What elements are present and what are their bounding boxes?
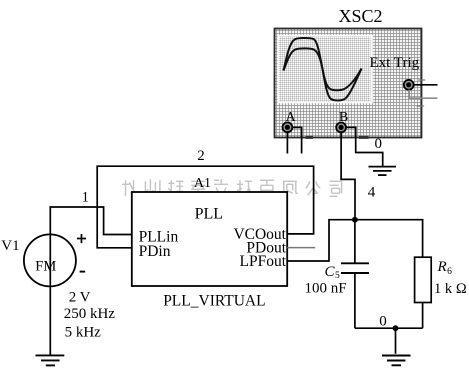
- svg-text:PLL_VIRTUAL: PLL_VIRTUAL: [163, 293, 265, 310]
- svg-text:PDin: PDin: [139, 243, 171, 260]
- svg-text:1 k Ω: 1 k Ω: [434, 281, 467, 297]
- ground symbol (V1): [36, 355, 65, 365]
- svg-text:250 kHz: 250 kHz: [64, 306, 116, 322]
- PLL block A1: [132, 148, 287, 310]
- svg-text:5 kHz: 5 kHz: [65, 325, 102, 341]
- capacitor C5: [341, 263, 369, 273]
- pin tick bottom edge left: [306, 136, 314, 139]
- svg-text:FM: FM: [35, 258, 56, 274]
- wire PDout stub: [287, 247, 315, 249]
- Ext Trig terminal: [404, 80, 414, 90]
- wire through circle: [49, 235, 51, 286]
- svg-text:Ext Trig: Ext Trig: [370, 55, 420, 71]
- terminal A: [283, 122, 293, 132]
- svg-text:LPFout: LPFout: [239, 253, 286, 270]
- scope body: [275, 29, 422, 138]
- svg-text:A1: A1: [194, 176, 211, 191]
- node junction (net 4): [352, 217, 358, 223]
- svg-text:1: 1: [82, 190, 90, 206]
- wire stub A L-shape: [292, 127, 302, 153]
- waveform trace 2 (inner): [284, 48, 362, 90]
- wire 2: PDin feedback loop to VCOout: [97, 166, 313, 248]
- waveform trace 1 (outer): [284, 38, 362, 100]
- wire stub A down: [286, 132, 288, 154]
- minus sign: [80, 271, 86, 273]
- svg-text:4: 4: [368, 185, 376, 201]
- node junction (net 0): [393, 325, 399, 331]
- wire R6 to node 0: [422, 303, 424, 329]
- svg-text:V1: V1: [1, 238, 19, 254]
- plus sign: [77, 234, 86, 243]
- ground symbol (bottom right): [382, 356, 411, 366]
- FM source V1: [1, 234, 115, 341]
- source circle: [24, 234, 76, 286]
- ground symbol (scope): [369, 167, 397, 176]
- oscilloscope XSC2: [275, 6, 438, 138]
- pin tick bottom edge right: [359, 136, 369, 139]
- wire 1: V1 to PLLin: [50, 207, 132, 235]
- wire C5 to node 0: [354, 273, 356, 328]
- svg-text:0: 0: [375, 136, 383, 152]
- watermark (decorative gray CJK-style glyphs): [122, 179, 342, 196]
- wire junction to R6: [355, 220, 423, 258]
- svg-text:PLL: PLL: [195, 206, 223, 223]
- wire junction to LPFout: [287, 220, 355, 261]
- svg-text:2: 2: [197, 148, 205, 164]
- terminal B: [336, 123, 346, 133]
- pin tick right edge lower: [417, 105, 424, 107]
- svg-text:0: 0: [379, 314, 387, 330]
- wire V1 to ground: [49, 286, 51, 354]
- scope screen: [277, 35, 373, 104]
- wire bottom node 0: [355, 327, 423, 329]
- pin tick right edge upper: [418, 79, 425, 81]
- wire 4: scope B to junction: [341, 132, 355, 220]
- wire Ext Trig out: [413, 84, 437, 86]
- svg-text:XSC2: XSC2: [338, 6, 382, 26]
- svg-text:100 nF: 100 nF: [305, 281, 347, 297]
- wire junction to C5: [354, 220, 356, 263]
- wire B to scope ground: [346, 127, 383, 166]
- resistor R6: [415, 257, 432, 302]
- svg-text:2 V: 2 V: [69, 290, 91, 306]
- PLL box: [132, 192, 287, 286]
- wire Ext Trig lower stub (gray): [409, 90, 437, 99]
- wire node 0 to ground: [395, 328, 397, 354]
